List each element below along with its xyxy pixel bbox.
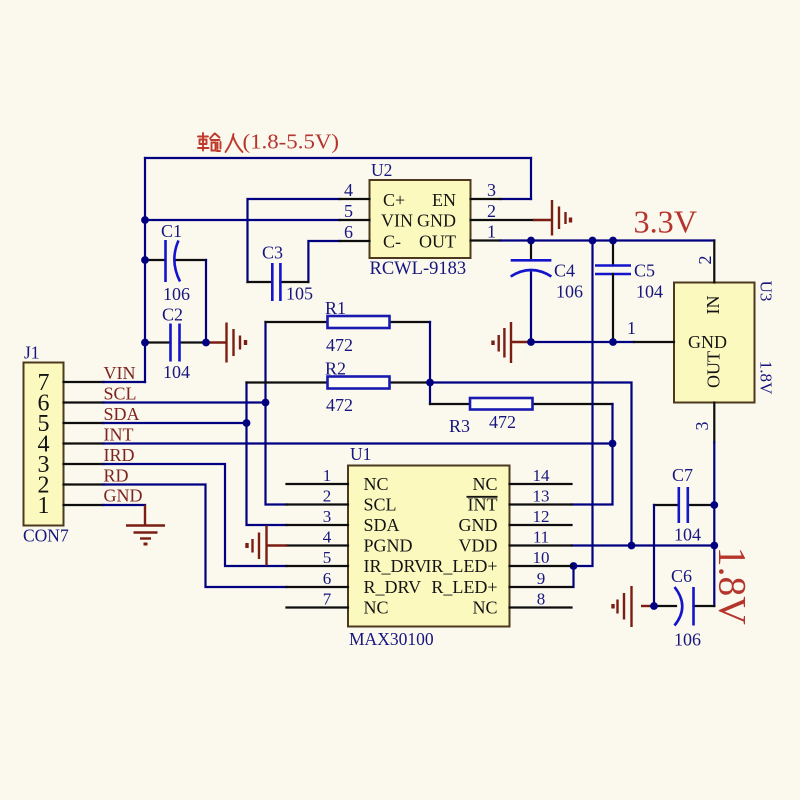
svg-text:472: 472 <box>326 335 353 355</box>
junction INT <box>609 440 617 448</box>
wire 1.8V vertical <box>713 443 715 607</box>
svg-text:9: 9 <box>537 569 546 588</box>
svg-text:3: 3 <box>692 422 712 431</box>
svg-text:IN: IN <box>703 296 723 315</box>
junction C4 top <box>527 237 535 245</box>
svg-text:C2: C2 <box>162 305 183 325</box>
svg-text:7: 7 <box>323 590 332 609</box>
svg-text:1: 1 <box>627 318 636 338</box>
svg-text:1.8V: 1.8V <box>757 361 776 395</box>
wire VIN pin7 <box>104 381 146 383</box>
U1 pin 6 R_DRV <box>287 569 422 597</box>
svg-text:6: 6 <box>344 222 353 242</box>
U1 pin 8 NC <box>472 590 571 618</box>
junction C7 right <box>710 501 718 509</box>
ground symbol at C2 <box>206 323 246 363</box>
J1 pin 5 <box>38 411 104 437</box>
junction C2 right <box>202 339 210 347</box>
capacitor C3 <box>248 243 314 304</box>
svg-text:106: 106 <box>163 284 190 304</box>
svg-text:VIN: VIN <box>381 211 413 231</box>
svg-text:GND: GND <box>417 211 456 231</box>
svg-text:MAX30100: MAX30100 <box>349 629 434 649</box>
U1 pin 1 NC <box>287 466 389 494</box>
wire LED+ rail vertical <box>572 241 593 567</box>
svg-text:VDD: VDD <box>459 536 498 556</box>
svg-text:R_DRV: R_DRV <box>364 577 422 597</box>
wire C7 left riser <box>653 505 655 606</box>
svg-text:OUT: OUT <box>419 232 456 252</box>
svg-text:5: 5 <box>344 201 353 221</box>
svg-text:U3: U3 <box>757 281 776 302</box>
U2 pin 3 EN <box>432 180 501 210</box>
wire SCL riser <box>266 322 287 505</box>
svg-text:NC: NC <box>364 474 389 494</box>
svg-text:IR_LED+: IR_LED+ <box>425 556 497 576</box>
svg-text:C1: C1 <box>161 221 182 241</box>
capacitor C6 <box>654 566 714 650</box>
svg-text:GND: GND <box>459 515 498 535</box>
wire RD row <box>104 485 287 588</box>
wire C1 right riser <box>205 260 207 343</box>
wire pin9 riser <box>572 566 574 587</box>
svg-text:106: 106 <box>556 282 583 302</box>
U2 pin 4 <box>340 180 406 210</box>
svg-text:472: 472 <box>326 395 353 415</box>
wire EN drop <box>530 158 532 199</box>
svg-text:1: 1 <box>323 466 332 485</box>
wire C3 left riser to pin4 <box>248 199 340 282</box>
IC U1 MAX30100 box <box>348 444 510 649</box>
J1 pin 1 <box>38 493 104 519</box>
svg-text:2: 2 <box>487 201 496 221</box>
U1 pin 11 VDD <box>459 528 572 556</box>
svg-text:104: 104 <box>674 525 701 545</box>
U1 pin 5 IR_DRV <box>287 548 428 576</box>
U2 pin 6 <box>340 222 402 252</box>
junction VDD/1.8V <box>710 542 718 550</box>
junction C6 left <box>650 602 658 610</box>
ground symbol at C6 (mirrored) <box>613 586 654 627</box>
U1 pin 10 IR_LED+ <box>425 548 571 576</box>
svg-text:NC: NC <box>472 474 497 494</box>
U1 pin 3 SDA <box>287 507 400 535</box>
U1 pin 7 NC <box>287 590 389 618</box>
junction pin9/pin10 <box>570 562 578 570</box>
resistor R1 <box>266 298 431 355</box>
U3 pin 3 OUT <box>692 351 724 443</box>
svg-text:C6: C6 <box>671 566 692 586</box>
svg-text:3: 3 <box>487 180 496 200</box>
svg-text:11: 11 <box>533 528 549 547</box>
junction C2 left <box>141 339 149 347</box>
svg-text:CON7: CON7 <box>23 526 69 546</box>
wire IRD row <box>104 464 287 566</box>
wire analog gnd row <box>531 341 634 343</box>
svg-text:C+: C+ <box>383 190 405 210</box>
svg-text:C-: C- <box>383 232 401 252</box>
svg-text:INT: INT <box>104 425 134 445</box>
svg-text:472: 472 <box>489 412 516 432</box>
svg-text:13: 13 <box>533 487 550 506</box>
junction SDA <box>243 419 251 427</box>
svg-text:C4: C4 <box>554 261 575 281</box>
junction C5 bottom <box>609 338 617 346</box>
svg-text:SCL: SCL <box>104 384 137 404</box>
U3 pin 1 GND <box>627 318 727 352</box>
wire VIN row to U2 pin5 <box>145 219 340 221</box>
capacitor C2 <box>145 305 206 383</box>
wire C3 right riser to pin6 <box>308 241 339 282</box>
regulator U3 box <box>674 281 776 403</box>
svg-text:GND: GND <box>104 486 143 506</box>
connector J1 CON7 box <box>23 343 69 546</box>
J1 pin 3 <box>38 452 104 478</box>
title 輸入(1.8-5.5V) <box>198 130 339 154</box>
svg-text:RD: RD <box>104 466 129 486</box>
capacitor C5 <box>595 241 663 343</box>
svg-text:U2: U2 <box>371 160 392 180</box>
ground symbol at U1 PGND (mirrored) <box>247 526 287 566</box>
junction LED rail top <box>589 237 597 245</box>
svg-text:SDA: SDA <box>364 515 400 535</box>
svg-text:NC: NC <box>472 598 497 618</box>
svg-text:RCWL-9183: RCWL-9183 <box>370 259 467 279</box>
wire SCL row <box>104 401 266 403</box>
U2 pin 2 GND <box>417 201 533 231</box>
IC U2 RCWL-9183 box <box>370 160 471 279</box>
U2 pin 5 <box>340 201 414 231</box>
svg-text:104: 104 <box>636 282 663 302</box>
svg-text:OUT: OUT <box>704 351 724 388</box>
wire top rail <box>145 157 531 159</box>
J1 pin 6 <box>38 391 104 417</box>
svg-text:5: 5 <box>323 548 332 567</box>
svg-text:3.3V: 3.3V <box>634 204 698 240</box>
J1 pin 7 <box>38 370 104 396</box>
U1 pin 13 INT <box>467 487 572 515</box>
junction C5 top <box>609 237 617 245</box>
svg-text:14: 14 <box>533 466 551 485</box>
U1 pin 12 GND <box>459 507 572 535</box>
svg-text:C5: C5 <box>634 261 655 281</box>
svg-text:IR_DRV: IR_DRV <box>364 556 428 576</box>
resistor R3 <box>430 398 613 436</box>
svg-text:6: 6 <box>323 569 332 588</box>
svg-text:GND: GND <box>688 332 727 352</box>
svg-text:(1.8-5.5V): (1.8-5.5V) <box>243 130 340 154</box>
wire GND pin1 <box>104 504 146 506</box>
U1 pin 14 NC <box>472 466 571 494</box>
junction C1 <box>141 256 149 264</box>
svg-text:R3: R3 <box>449 416 470 436</box>
svg-text:SDA: SDA <box>104 404 140 424</box>
svg-text:2: 2 <box>695 256 715 265</box>
svg-text:8: 8 <box>537 590 546 609</box>
capacitor C4 <box>511 241 583 343</box>
U1 pin 2 SCL <box>287 487 397 515</box>
svg-text:4: 4 <box>344 180 353 200</box>
svg-text:R_LED+: R_LED+ <box>431 577 497 597</box>
svg-text:C3: C3 <box>262 243 283 263</box>
wire EN to pin3 <box>501 198 532 200</box>
wire INT row <box>104 442 613 444</box>
wire R1 right riser <box>429 322 431 404</box>
wire pull-up rail to VDD <box>430 383 632 546</box>
wire VDD row <box>572 544 715 546</box>
svg-text:EN: EN <box>432 190 456 210</box>
wire SDA riser <box>247 383 287 526</box>
svg-text:3: 3 <box>323 507 332 526</box>
svg-text:104: 104 <box>163 362 190 382</box>
svg-text:C7: C7 <box>672 465 693 485</box>
svg-text:U1: U1 <box>350 444 371 464</box>
svg-text:106: 106 <box>674 630 701 650</box>
wire SDA row <box>104 422 247 424</box>
svg-text:10: 10 <box>533 548 550 567</box>
capacitor C7 <box>654 465 714 545</box>
junction VIN row <box>141 216 149 224</box>
svg-text:PGND: PGND <box>364 536 413 556</box>
svg-text:SCL: SCL <box>364 495 397 515</box>
svg-text:12: 12 <box>533 507 550 526</box>
svg-text:IRD: IRD <box>104 445 135 465</box>
U1 pin 9 R_LED+ <box>431 569 571 597</box>
svg-text:105: 105 <box>286 284 313 304</box>
J1 pin 2 <box>38 473 104 499</box>
wire 3.3V rail <box>501 239 715 241</box>
junction VDD/rail <box>628 542 636 550</box>
svg-text:VIN: VIN <box>104 363 136 383</box>
svg-text:1: 1 <box>38 493 50 519</box>
capacitor C1 <box>145 221 206 304</box>
svg-text:4: 4 <box>323 528 332 547</box>
junction C4 bottom <box>527 338 535 346</box>
svg-text:1: 1 <box>487 222 496 242</box>
svg-text:R2: R2 <box>325 359 346 379</box>
svg-text:2: 2 <box>323 487 332 506</box>
ground symbol at U2 pin2 <box>533 200 571 236</box>
J1 pin 4 <box>38 432 104 458</box>
svg-text:NC: NC <box>364 598 389 618</box>
wire VIN vertical <box>144 158 146 382</box>
junction SCL <box>262 399 270 407</box>
svg-text:R1: R1 <box>325 298 346 318</box>
U1 pin 4 PGND <box>287 528 413 556</box>
junction R1/R2 <box>426 379 434 387</box>
earth ground at J1 <box>126 505 165 544</box>
U3 pin 2 IN <box>695 241 723 315</box>
ground symbol at gnd row (mirrored) <box>493 322 531 363</box>
svg-text:J1: J1 <box>24 343 40 363</box>
resistor R2 <box>247 359 431 416</box>
U2 pin 1 OUT <box>419 222 501 252</box>
svg-text:1.8V: 1.8V <box>711 547 754 625</box>
wire INT riser to U1 pin13 <box>572 404 613 505</box>
